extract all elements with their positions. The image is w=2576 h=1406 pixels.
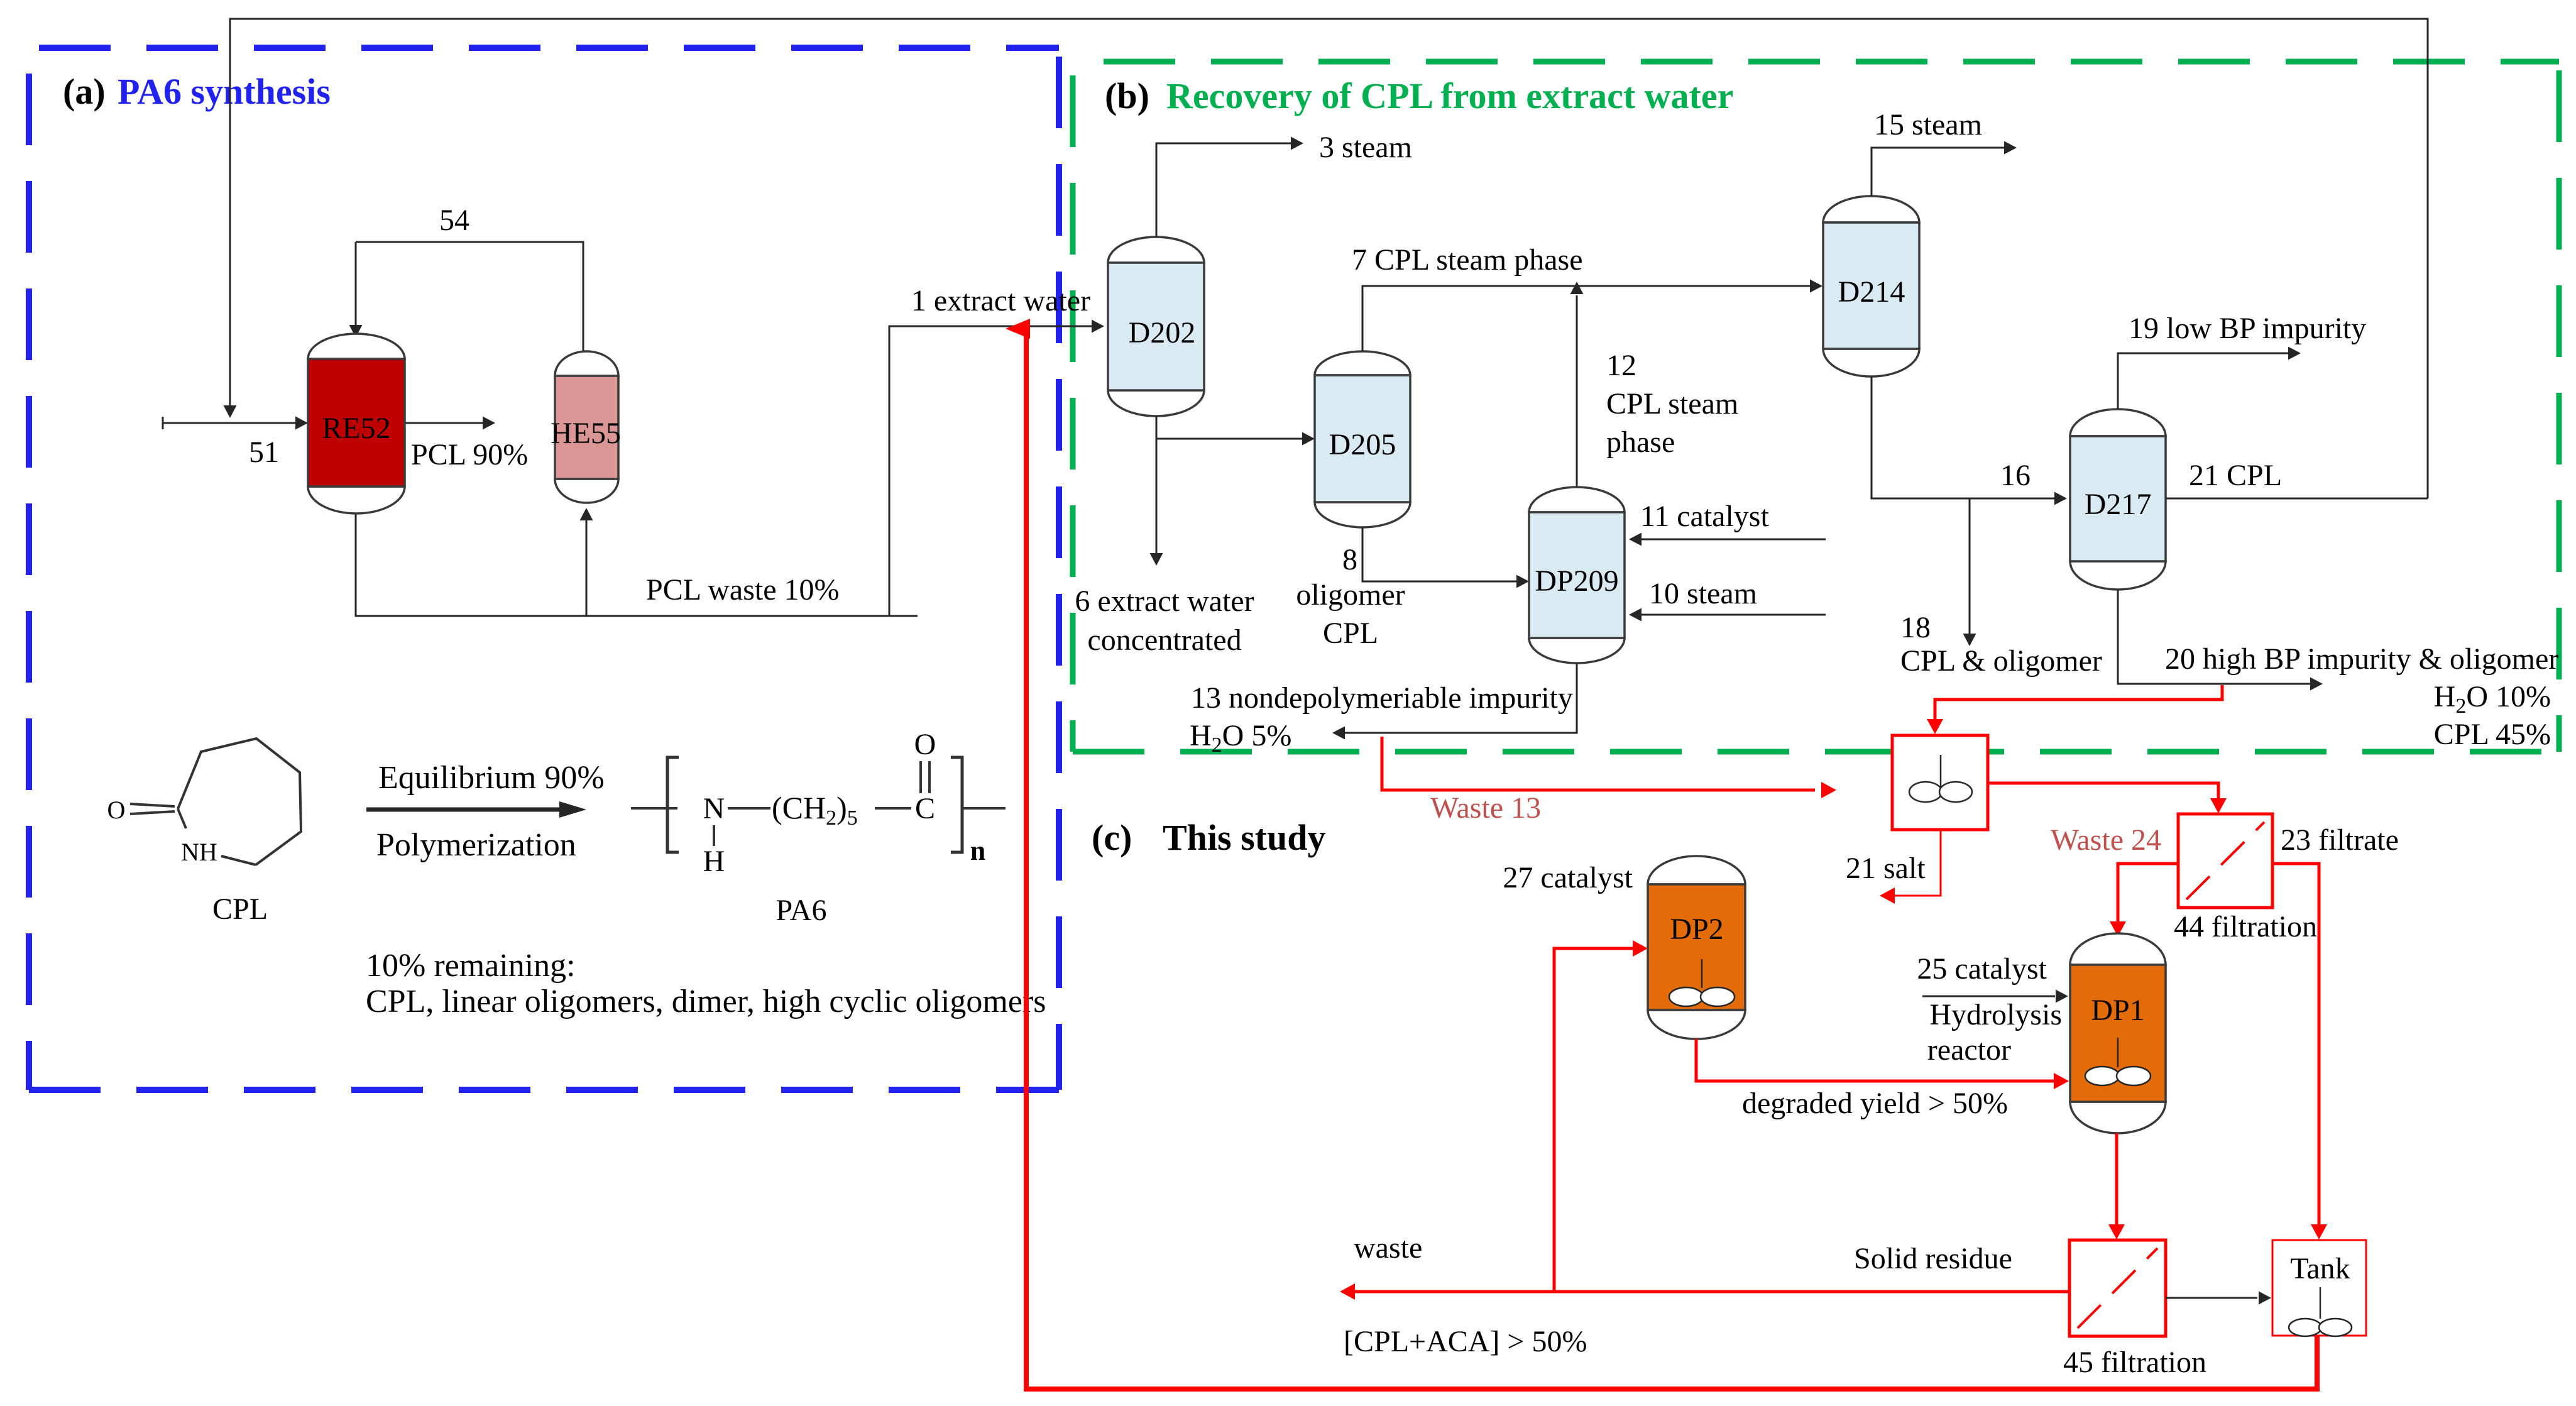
svg-text:PA6 synthesis: PA6 synthesis <box>118 71 331 112</box>
svg-text:18: 18 <box>1900 611 1931 644</box>
svg-text:10 steam: 10 steam <box>1649 577 1757 610</box>
svg-text:Waste 13: Waste 13 <box>1430 791 1541 825</box>
svg-text:NH: NH <box>181 838 217 866</box>
svg-text:Solid residue: Solid residue <box>1854 1242 2012 1275</box>
svg-text:PCL waste 10%: PCL waste 10% <box>646 573 840 607</box>
svg-text:13 nondepolymeriable impurity: 13 nondepolymeriable impurity <box>1191 681 1573 715</box>
svg-text:CPL, linear oligomers, dimer,: CPL, linear oligomers, dimer, high cycli… <box>366 984 1046 1019</box>
svg-text:concentrated: concentrated <box>1087 623 1241 657</box>
svg-text:Polymerization: Polymerization <box>376 827 576 863</box>
svg-text:Equilibrium 90%: Equilibrium 90% <box>378 760 605 796</box>
svg-text:15 steam: 15 steam <box>1874 108 1982 141</box>
svg-text:21 CPL: 21 CPL <box>2189 459 2282 492</box>
svg-text:51: 51 <box>249 436 279 469</box>
svg-text:DP209: DP209 <box>1535 564 1618 598</box>
svg-text:(CH2)5: (CH2)5 <box>772 790 858 830</box>
svg-text:3 steam: 3 steam <box>1319 131 1412 164</box>
svg-text:C: C <box>915 792 935 825</box>
svg-text:CPL steam: CPL steam <box>1606 387 1738 420</box>
svg-text:Recovery of CPL from extract w: Recovery of CPL from extract water <box>1166 75 1733 116</box>
svg-text:D217: D217 <box>2085 488 2152 521</box>
svg-text:PCL 90%: PCL 90% <box>411 438 528 471</box>
svg-text:Tank: Tank <box>2290 1252 2350 1285</box>
svg-text:D214: D214 <box>1838 275 1905 309</box>
svg-text:CPL 45%: CPL 45% <box>2434 718 2551 751</box>
svg-text:7 CPL steam phase: 7 CPL steam phase <box>1352 243 1583 277</box>
svg-text:12: 12 <box>1606 349 1636 382</box>
svg-text:O: O <box>914 728 936 761</box>
svg-text:21 salt: 21 salt <box>1846 852 1926 885</box>
svg-text:reactor: reactor <box>1927 1033 2011 1067</box>
svg-text:44 filtration: 44 filtration <box>2174 910 2317 943</box>
svg-text:54: 54 <box>439 204 469 237</box>
svg-text:H: H <box>703 845 725 878</box>
svg-text:11 catalyst: 11 catalyst <box>1640 500 1769 533</box>
svg-text:45 filtration: 45 filtration <box>2063 1346 2206 1379</box>
svg-text:HE55: HE55 <box>551 417 621 450</box>
svg-text:phase: phase <box>1606 426 1675 459</box>
svg-text:H2O 10%: H2O 10% <box>2434 680 2551 718</box>
svg-text:23 filtrate: 23 filtrate <box>2281 823 2399 857</box>
svg-text:D202: D202 <box>1129 316 1196 349</box>
svg-text:25 catalyst: 25 catalyst <box>1917 952 2047 986</box>
svg-text:6 extract water: 6 extract water <box>1075 585 1254 618</box>
svg-text:CPL: CPL <box>1323 617 1378 650</box>
svg-text:DP1: DP1 <box>2091 994 2144 1027</box>
svg-text:16: 16 <box>2000 459 2031 492</box>
svg-text:CPL: CPL <box>212 892 268 926</box>
svg-text:RE52: RE52 <box>322 412 390 445</box>
svg-text:degraded yield > 50%: degraded yield > 50% <box>1742 1087 2008 1120</box>
svg-text:This study: This study <box>1163 817 1326 858</box>
svg-text:Hydrolysis: Hydrolysis <box>1929 998 2062 1031</box>
svg-text:oligomer: oligomer <box>1296 578 1405 612</box>
svg-text:19 low BP impurity: 19 low BP impurity <box>2129 312 2366 345</box>
svg-text:8: 8 <box>1342 543 1357 576</box>
svg-text:20 high BP impurity & oligomer: 20 high BP impurity & oligomer <box>2165 642 2558 676</box>
svg-text:O: O <box>107 796 126 824</box>
svg-text:H2O 5%: H2O 5% <box>1190 719 1291 757</box>
svg-text:10% remaining:: 10% remaining: <box>366 948 576 984</box>
svg-text:waste: waste <box>1354 1231 1422 1265</box>
svg-text:N: N <box>703 792 725 825</box>
svg-text:D205: D205 <box>1329 428 1396 461</box>
svg-text:PA6: PA6 <box>776 894 827 927</box>
svg-text:[CPL+ACA] > 50%: [CPL+ACA] > 50% <box>1344 1325 1587 1358</box>
svg-text:(a): (a) <box>63 71 106 112</box>
svg-text:(c): (c) <box>1092 817 1132 858</box>
svg-text:CPL & oligomer: CPL & oligomer <box>1900 644 2102 678</box>
svg-text:n: n <box>970 835 985 866</box>
svg-text:Waste 24: Waste 24 <box>2051 823 2161 857</box>
svg-text:27 catalyst: 27 catalyst <box>1503 861 1633 894</box>
svg-text:(b): (b) <box>1105 75 1149 116</box>
svg-text:DP2: DP2 <box>1670 913 1723 946</box>
svg-text:1 extract water: 1 extract water <box>911 284 1090 317</box>
